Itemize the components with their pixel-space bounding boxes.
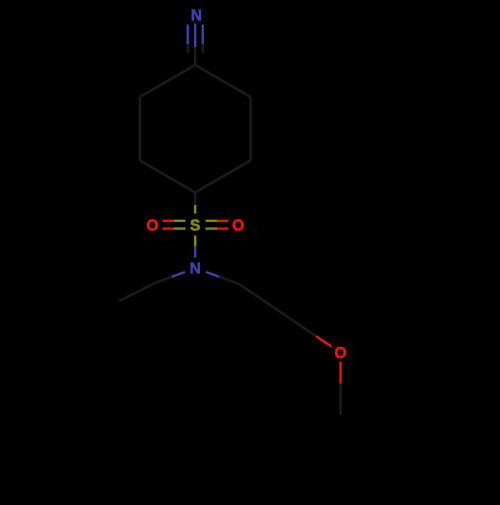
svg-text:N: N: [191, 8, 202, 25]
bond nitrileC - ring top: [194, 56, 197, 65]
bond N - CH2 right : N half: [206, 272, 219, 277]
bond CH2 - O : O half: [316, 336, 331, 346]
bond O - CH3 : O half: [339, 362, 341, 384]
S=O left double bond: [163, 221, 186, 229]
S=O right double bond: [206, 221, 229, 229]
bond CH2 - CH2: [239, 284, 290, 318]
bond CH2 - O : C half: [290, 318, 316, 336]
benzene ring: [140, 65, 251, 193]
bond S - N : S half: [194, 236, 196, 247]
svg-text:S: S: [190, 218, 200, 235]
bond O - CH3 : C half: [339, 384, 342, 415]
bond N - CH2 ethyl : C half: [155, 277, 172, 283]
svg-text:O: O: [146, 218, 158, 235]
bond CH2 - CH3 ethyl: [119, 283, 155, 301]
bond ring bottom - S : C half: [194, 193, 197, 206]
nitrile triple bond C#N : N half (blue): [188, 24, 203, 48]
nitrile triple bond C#N : C half (dark): [188, 44, 203, 58]
atom labels: [146, 8, 346, 363]
bond ring bottom - S : S half: [194, 205, 196, 214]
svg-text:O: O: [232, 218, 244, 235]
bond S - N : N half: [194, 246, 196, 257]
bond N - CH2 right : C half: [219, 277, 239, 284]
bond N - CH2 ethyl : N half: [172, 272, 185, 277]
svg-text:N: N: [190, 260, 201, 277]
svg-text:O: O: [334, 345, 346, 362]
